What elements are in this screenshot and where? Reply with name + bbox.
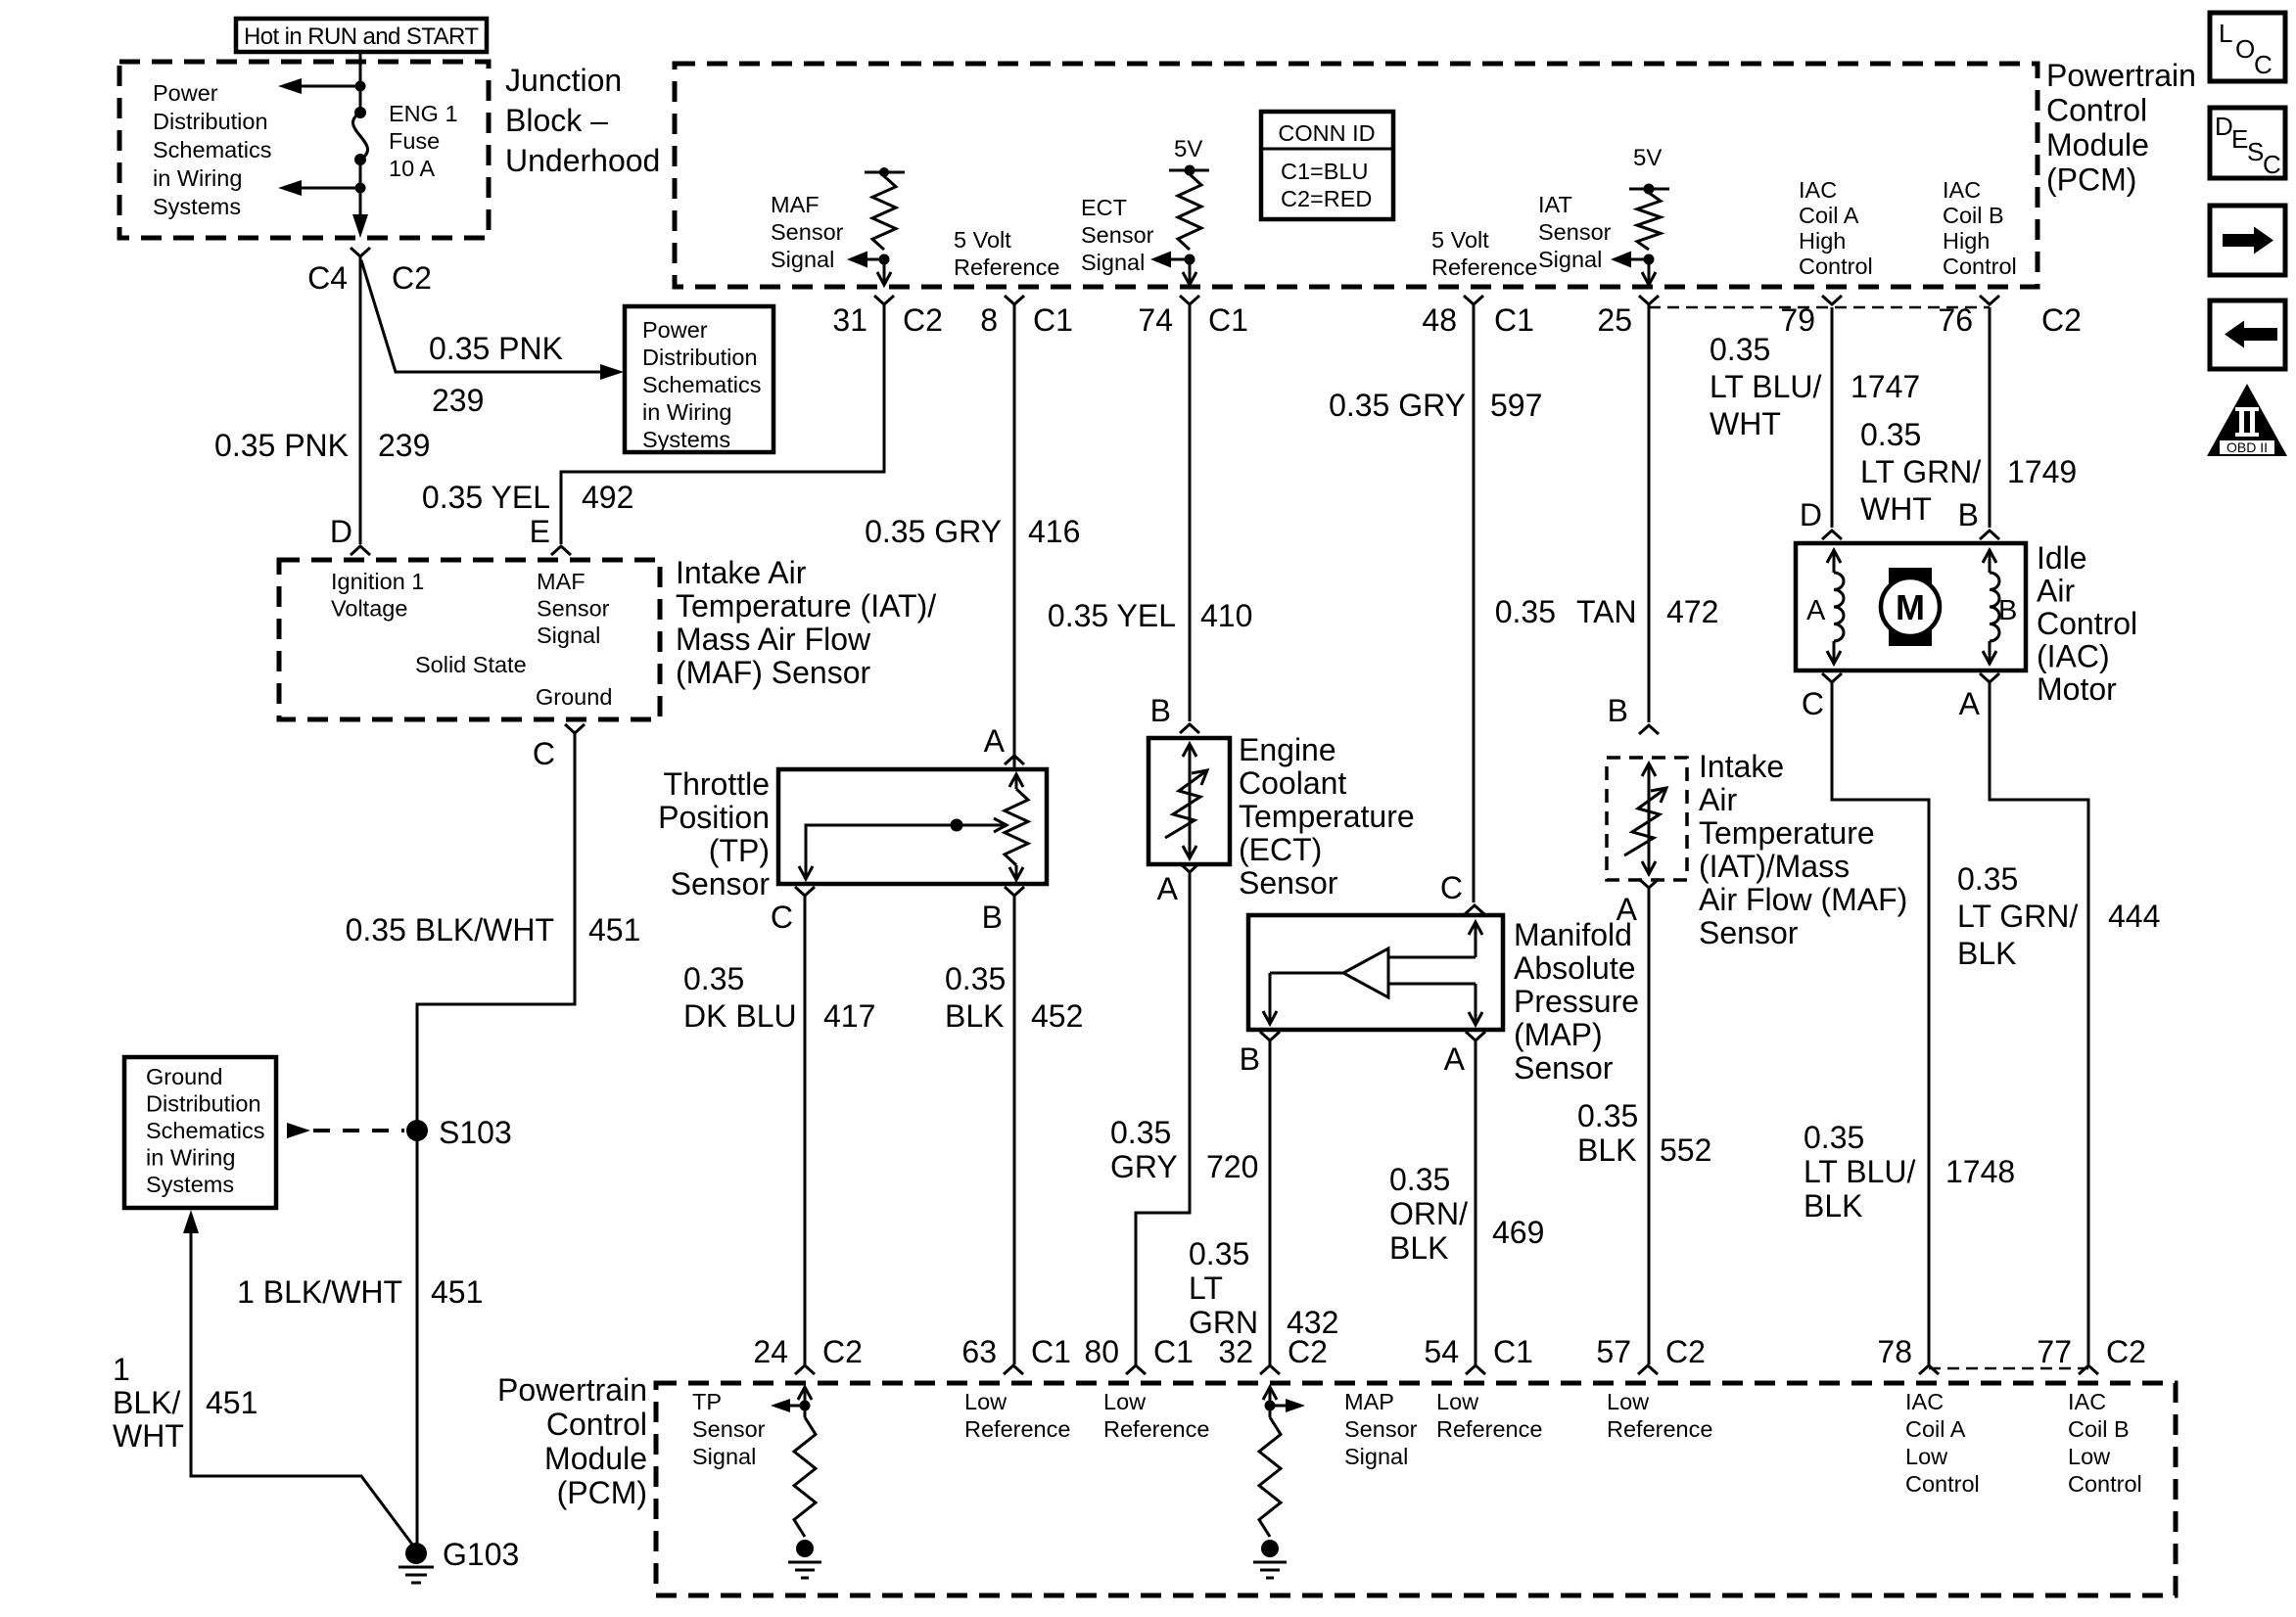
wire: 0.35 PNK 239 to MAF sensor D [359,256,362,544]
wire: 0.35 BLK 452, TP B to pin 63 [1013,896,1016,1364]
svg-text:Coil B: Coil B [2068,1416,2130,1442]
wire: 0.35 GRY 416, pin 8 to TP sensor A [1013,304,1016,769]
connector C4/C2 [351,248,370,256]
svg-text:B: B [1998,595,2017,626]
svg-text:Low: Low [964,1389,1007,1414]
svg-text:C2: C2 [392,260,432,296]
junction block dashed box [119,62,489,238]
svg-text:Sensor: Sensor [1699,915,1799,950]
connector C of TP sensor [795,887,815,896]
wire: 0.35 DK BLU 417, TP C to pin 24 [804,896,807,1364]
svg-text:Sensor: Sensor [671,866,771,901]
pin 76 [1980,296,1999,304]
svg-text:74: 74 [1138,302,1173,338]
svg-text:BLK: BLK [1957,936,2016,971]
connector C of MAF sensor [565,724,585,733]
svg-text:C2=RED: C2=RED [1281,186,1372,211]
svg-text:Air: Air [2037,574,2075,609]
wire: 1 BLK/WHT 451 to ground distribution [183,1210,199,1233]
icon arrow left [2210,300,2285,369]
svg-text:C2: C2 [903,302,943,338]
connector D of IAC motor [1822,531,1842,539]
svg-text:Low: Low [1607,1389,1650,1414]
wire: 0.35 GRY 720, ECT A to pin 80 [1136,872,1190,1364]
svg-text:WHT: WHT [113,1418,184,1454]
svg-text:LT GRN/: LT GRN/ [1860,454,1981,489]
svg-text:Junction: Junction [505,63,622,98]
svg-text:(PCM): (PCM) [557,1475,647,1510]
pin 63 [1004,1365,1023,1374]
connector A of IAC motor [1980,673,1999,682]
svg-text:Temperature (IAT)/: Temperature (IAT)/ [676,588,936,624]
svg-text:(PCM): (PCM) [2046,162,2136,198]
pin 25 [1639,296,1659,304]
svg-text:76: 76 [1938,302,1973,338]
svg-text:Sensor: Sensor [1239,865,1338,901]
svg-text:Distribution: Distribution [153,109,268,134]
svg-text:Fuse: Fuse [389,128,440,154]
svg-text:1747: 1747 [1851,369,1920,404]
svg-text:Sensor: Sensor [1081,222,1154,248]
svg-text:Schematics: Schematics [642,372,761,397]
svg-text:0.35: 0.35 [1389,1162,1450,1197]
svg-text:O: O [2235,34,2255,64]
svg-text:0.35: 0.35 [1957,861,2018,897]
svg-text:OBD II: OBD II [2226,439,2268,455]
wire: 0.35 LT GRN/BLK 444, IAC A to pin 77 [1990,682,2088,1364]
svg-text:Sensor: Sensor [537,596,610,622]
svg-text:Reference: Reference [954,254,1059,280]
connector B of IAC motor [1980,531,1999,539]
svg-text:Coil A: Coil A [1799,203,1859,228]
svg-text:A: A [1617,892,1638,927]
svg-text:452: 452 [1031,998,1083,1034]
svg-text:ENG 1: ENG 1 [389,101,458,126]
wire: 0.35 LT BLU/WHT 1747, pin 79 to IAC D [1831,307,1834,528]
wire: 0.35 YEL 492 MAF signal, pin 31 to E [561,304,884,544]
svg-text:Motor: Motor [2037,671,2117,707]
thin connector dashed line pins 78-77 [1929,1367,2088,1370]
svg-text:WHT: WHT [1710,406,1781,441]
svg-text:0.35 GRY: 0.35 GRY [865,514,1002,549]
svg-text:C4: C4 [307,260,348,296]
svg-text:0.35: 0.35 [1495,594,1556,629]
svg-text:BLK: BLK [1804,1188,1862,1224]
svg-text:5V: 5V [1633,145,1662,171]
svg-text:Schematics: Schematics [146,1118,264,1143]
ECT internal thermistor [1189,744,1192,858]
connector D of MAF sensor [351,546,370,555]
svg-text:239: 239 [432,383,484,418]
svg-text:0.35: 0.35 [1860,417,1921,452]
ECT signal pull-up resistor [1178,174,1201,250]
svg-text:Absolute: Absolute [1514,950,1636,986]
wire: 0.35 LT GRN 432, MAP B to pin 32 [1269,1040,1272,1364]
svg-text:C1=BLU: C1=BLU [1281,159,1368,184]
svg-text:A: A [1806,595,1826,626]
pin 79 [1822,296,1842,304]
svg-text:Powertrain: Powertrain [497,1372,647,1408]
wire: 0.35 BLK 552, IAT A to pin 57 [1648,888,1651,1364]
svg-text:Module: Module [544,1441,647,1476]
svg-text:Intake: Intake [1699,749,1784,784]
svg-text:0.35: 0.35 [1577,1098,1638,1133]
svg-text:TAN: TAN [1576,594,1637,629]
svg-text:0.35 BLK/WHT: 0.35 BLK/WHT [346,912,554,947]
CONN ID table [1261,112,1393,219]
svg-text:Signal: Signal [1344,1444,1408,1469]
svg-text:Signal: Signal [692,1444,756,1469]
svg-text:Intake Air: Intake Air [676,555,807,590]
svg-text:C2: C2 [1288,1334,1328,1369]
wire branch 0.35 PNK 239 to power distribution [361,260,603,372]
svg-text:Block –: Block – [505,103,608,138]
IAC coil B [1989,550,1991,573]
svg-text:Sensor: Sensor [1514,1050,1614,1086]
connector E of MAF sensor [551,546,571,555]
svg-text:1 BLK/WHT: 1 BLK/WHT [237,1274,402,1310]
TP sensor signal input (pin 24) [798,1387,812,1400]
power feed label box "Hot in RUN and START" [236,19,487,52]
svg-text:BLK: BLK [1577,1132,1636,1168]
svg-text:720: 720 [1206,1149,1258,1184]
svg-text:DK BLU: DK BLU [683,998,797,1034]
svg-text:B: B [1958,497,1979,532]
svg-text:0.35: 0.35 [1110,1115,1171,1150]
svg-text:BLK/: BLK/ [113,1385,180,1420]
svg-text:ORN/: ORN/ [1389,1196,1468,1231]
svg-text:0.35: 0.35 [1804,1120,1864,1155]
connector B of TP sensor [1005,887,1024,896]
svg-text:597: 597 [1490,388,1542,423]
svg-text:Low: Low [2068,1444,2111,1469]
svg-text:BLK: BLK [945,998,1004,1034]
svg-text:410: 410 [1200,598,1252,633]
svg-text:472: 472 [1666,594,1718,629]
svg-text:32: 32 [1218,1334,1253,1369]
svg-text:D: D [330,514,352,549]
svg-text:451: 451 [431,1274,483,1310]
svg-text:C: C [771,900,793,935]
svg-text:S: S [2247,137,2264,166]
svg-text:C2: C2 [2041,302,2082,338]
svg-text:Module: Module [2046,127,2149,162]
svg-text:E: E [530,514,550,549]
svg-text:0.35 PNK: 0.35 PNK [214,428,349,463]
svg-text:WHT: WHT [1860,491,1932,527]
svg-text:469: 469 [1492,1215,1544,1250]
svg-text:Coil A: Coil A [1905,1416,1966,1442]
wire: 0.35 TAN 472, pin 25 to IAT B [1648,304,1651,722]
svg-text:High: High [1799,228,1846,254]
svg-text:Ground: Ground [146,1064,222,1089]
svg-text:LT BLU/: LT BLU/ [1804,1154,1916,1189]
fuse ENG 1 10A [354,107,366,118]
svg-text:Ignition 1: Ignition 1 [331,569,424,594]
svg-text:Sensor: Sensor [692,1416,766,1442]
ECT sensor signal arrow [1171,258,1190,261]
svg-text:451: 451 [206,1385,258,1420]
svg-text:1748: 1748 [1945,1154,2015,1189]
svg-text:MAP: MAP [1344,1389,1394,1414]
svg-text:0.35 PNK: 0.35 PNK [429,331,563,366]
svg-text:Systems: Systems [642,427,730,452]
svg-text:C2: C2 [822,1334,863,1369]
node: lower feed junction [355,183,366,194]
icon OBD II triangle [2207,384,2287,456]
svg-text:Power: Power [153,80,218,106]
svg-text:8: 8 [980,302,998,338]
svg-text:0.35 YEL: 0.35 YEL [422,480,550,515]
svg-text:Systems: Systems [146,1172,234,1197]
svg-text:B: B [1608,693,1628,728]
svg-text:C: C [2263,150,2281,179]
PCM top dashed box [675,64,2038,287]
svg-text:Sensor: Sensor [1538,219,1612,245]
connector A of ECT sensor [1180,863,1199,872]
svg-text:A: A [1959,686,1981,721]
svg-text:Position: Position [658,800,770,835]
svg-text:444: 444 [2108,899,2160,934]
connector C of IAC motor [1822,673,1842,682]
svg-text:L: L [2219,19,2232,48]
MAP internal amplifier [1475,924,1477,957]
connector C of MAP sensor [1465,905,1484,914]
svg-text:Reference: Reference [964,1416,1070,1442]
svg-text:54: 54 [1424,1334,1459,1369]
arrow + dashed link to S103 [287,1123,310,1138]
svg-text:80: 80 [1084,1334,1119,1369]
svg-text:Reference: Reference [1103,1416,1209,1442]
svg-text:C1: C1 [1494,302,1534,338]
svg-text:Temperature: Temperature [1239,799,1415,834]
svg-text:(MAP): (MAP) [1514,1017,1603,1052]
svg-text:Solid State: Solid State [415,652,527,677]
svg-text:A: A [1157,871,1179,906]
svg-text:Schematics: Schematics [153,137,271,162]
wire: 0.35 GRY 597, pin 48 to MAP C [1473,304,1476,902]
pin 80 [1126,1365,1146,1374]
MAF sensor signal arrow [867,258,884,261]
svg-text:E: E [2231,124,2248,154]
connector A of MAP sensor [1466,1032,1485,1040]
svg-text:(IAC): (IAC) [2037,639,2110,674]
svg-text:TP: TP [692,1389,722,1414]
svg-text:IAT: IAT [1538,192,1572,217]
svg-text:Sensor: Sensor [771,219,844,245]
wire: ignition feed from Hot in RUN and START [359,52,362,113]
IAT signal pull-up resistor [1637,193,1661,250]
svg-text:Power: Power [642,317,708,343]
svg-text:Signal: Signal [1081,250,1145,275]
svg-text:24: 24 [753,1334,788,1369]
connector A of TP sensor [1005,756,1024,764]
TP sensor box [778,769,1047,884]
svg-text:0.35 YEL: 0.35 YEL [1048,598,1176,633]
svg-text:B: B [982,900,1003,935]
TP wiper [806,825,1005,878]
wire: 0.35 ORN/BLK 469, MAP A to pin 54 [1475,1040,1477,1364]
svg-text:B: B [1240,1041,1260,1077]
pin 74 [1180,296,1199,304]
thin connector dashed line pins 25-76 [1649,306,1990,309]
IAT sensor signal arrow [1631,258,1649,261]
svg-text:C1: C1 [1208,302,1248,338]
svg-text:Sensor: Sensor [1344,1416,1418,1442]
svg-text:D: D [1800,497,1822,532]
svg-text:Mass Air Flow: Mass Air Flow [676,622,871,657]
svg-text:C: C [2254,50,2273,79]
svg-text:0.35: 0.35 [945,961,1006,996]
svg-text:A: A [984,723,1006,759]
svg-text:IAC: IAC [1905,1389,1944,1414]
arrow down to pin 74 [1189,259,1192,284]
svg-text:5V: 5V [1174,136,1202,162]
svg-text:Reference: Reference [1607,1416,1712,1442]
svg-text:S103: S103 [439,1115,512,1150]
icon LOC [2210,13,2285,81]
svg-text:MAF: MAF [771,192,820,217]
IAC motor M [1889,568,1932,585]
svg-text:31: 31 [832,302,867,338]
svg-text:48: 48 [1422,302,1457,338]
splice S103 [406,1120,428,1141]
svg-text:1: 1 [113,1352,130,1387]
svg-text:Voltage: Voltage [331,596,407,622]
svg-text:Idle: Idle [2037,540,2087,576]
pin 77 [2079,1365,2098,1374]
IAC coil A [1833,550,1836,573]
svg-text:Hot in RUN and START: Hot in RUN and START [244,23,479,50]
svg-text:Control: Control [2046,93,2147,128]
svg-text:Signal: Signal [771,247,834,272]
svg-text:in Wiring: in Wiring [642,399,731,425]
svg-text:63: 63 [961,1334,997,1369]
svg-text:552: 552 [1660,1132,1711,1168]
svg-text:Pressure: Pressure [1514,984,1639,1019]
svg-text:LT BLU/: LT BLU/ [1710,369,1822,404]
svg-text:5 Volt: 5 Volt [954,227,1011,253]
svg-text:MAF: MAF [537,569,586,594]
svg-text:Control: Control [2037,606,2137,641]
wire below fuse [359,160,362,219]
IAT sensor dashed box [1607,758,1687,880]
ground G103 [405,1543,427,1564]
MAP sensor box [1248,915,1503,1030]
MAF sensor dashed box [279,560,660,719]
svg-text:(ECT): (ECT) [1239,832,1322,867]
wire: 0.35 YEL 410, pin 74 to ECT B [1189,304,1192,721]
svg-text:Systems: Systems [153,194,241,219]
svg-text:C1: C1 [1033,302,1073,338]
svg-text:High: High [1943,228,1990,254]
icon arrow right [2210,206,2285,275]
svg-text:239: 239 [378,428,430,463]
wire: 0.35 LT GRN/WHT 1749, pin 76 to IAC B [1989,307,1991,528]
svg-text:C: C [533,736,555,771]
svg-text:C: C [1440,870,1463,905]
svg-text:79: 79 [1780,302,1815,338]
svg-text:Low: Low [1905,1444,1948,1469]
svg-text:Control: Control [1943,254,2017,279]
wire to power distribution (left arrow) [300,85,360,88]
svg-text:C: C [1802,686,1824,721]
svg-text:C2: C2 [1665,1334,1706,1369]
connector B of MAP sensor [1260,1032,1280,1040]
svg-text:M: M [1896,587,1925,627]
svg-text:CONN ID: CONN ID [1278,120,1375,146]
svg-text:(IAT)/Mass: (IAT)/Mass [1699,849,1850,884]
svg-text:C1: C1 [1153,1334,1194,1369]
svg-text:G103: G103 [443,1537,519,1572]
pin 32 [1260,1365,1280,1374]
svg-text:Distribution: Distribution [642,345,758,370]
svg-text:57: 57 [1596,1334,1631,1369]
svg-text:77: 77 [2037,1334,2072,1369]
svg-text:Distribution: Distribution [146,1091,261,1117]
svg-text:0.35: 0.35 [1189,1236,1249,1271]
svg-text:492: 492 [582,480,633,515]
IAC motor box [1796,543,2026,670]
MAP sensor signal input (pin 32) [1263,1387,1277,1400]
svg-text:Reference: Reference [1431,254,1537,280]
connector A of IAT sensor [1639,879,1659,888]
svg-text:Throttle: Throttle [664,766,770,802]
svg-text:BLK: BLK [1389,1230,1448,1266]
arrow down to pin 25 [1648,259,1651,284]
svg-text:C1: C1 [1493,1334,1533,1369]
pin 31 [874,296,894,304]
arrow into junction block bottom [352,214,368,238]
svg-text:Control: Control [1905,1471,1980,1497]
svg-text:Control: Control [2068,1471,2142,1497]
svg-text:IAC: IAC [1799,177,1837,203]
pin 78 [1919,1365,1939,1374]
svg-text:Signal: Signal [537,623,600,648]
MAF signal pull-up resistor [865,171,905,174]
svg-text:Low: Low [1436,1389,1479,1414]
wire: 0.35 LT BLU/BLK 1748, IAC C to pin 78 [1832,682,1929,1364]
wire to power distribution lower (left arrow) [300,187,360,190]
svg-text:1749: 1749 [2007,454,2077,489]
svg-text:0.35: 0.35 [1710,332,1770,367]
pin 54 [1466,1365,1485,1374]
svg-text:0.35 GRY: 0.35 GRY [1329,388,1466,423]
svg-text:78: 78 [1877,1334,1912,1369]
svg-text:10 A: 10 A [389,156,435,181]
svg-text:Coil B: Coil B [1943,203,2004,228]
svg-text:Reference: Reference [1436,1416,1542,1442]
svg-text:LT: LT [1189,1270,1223,1306]
svg-text:A: A [1444,1041,1466,1077]
svg-text:(TP): (TP) [709,833,770,868]
wire: 0.35 BLK/WHT 451 MAF ground to S103 [417,733,575,1548]
svg-text:(MAF) Sensor: (MAF) Sensor [676,655,870,690]
connector B of ECT sensor [1180,724,1199,733]
svg-text:451: 451 [588,912,640,947]
ground distribution schematics box [124,1057,276,1208]
TP potentiometer resistor [1005,774,1028,880]
svg-text:5 Volt: 5 Volt [1431,227,1489,253]
PCM bottom dashed box [656,1383,2176,1595]
svg-text:416: 416 [1028,514,1080,549]
svg-text:B: B [1150,693,1171,728]
svg-text:in Wiring: in Wiring [153,165,242,191]
svg-text:Air Flow (MAF): Air Flow (MAF) [1699,882,1907,917]
pin 57 [1638,1365,1658,1374]
svg-text:Engine: Engine [1239,732,1336,767]
ECT sensor box [1148,738,1230,864]
